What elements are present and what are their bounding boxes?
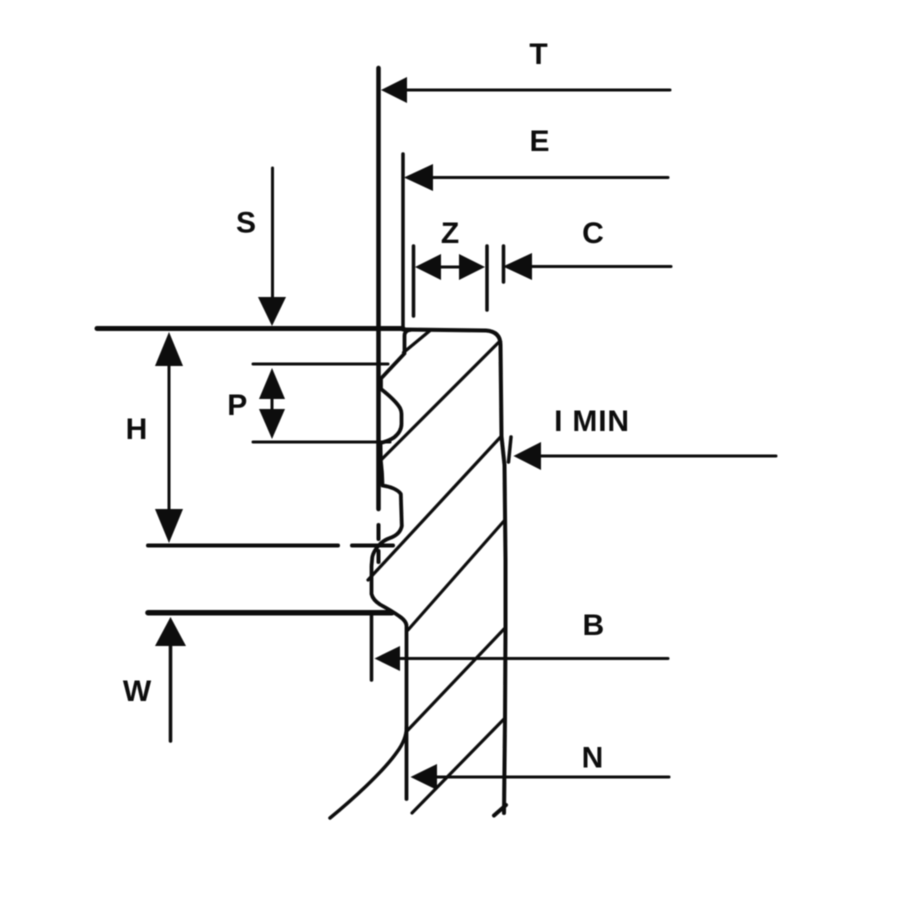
Z dimension line — [438, 266, 462, 269]
Z left arrowhead — [415, 254, 441, 280]
P top tick line — [253, 363, 388, 366]
Z left extension tick — [412, 246, 416, 316]
I MIN extension tick — [509, 437, 512, 462]
B arrowhead — [375, 646, 401, 671]
T reference vertical line — [376, 68, 381, 509]
W arrowhead — [155, 617, 186, 646]
B extension tick — [370, 612, 374, 680]
B dimension line — [398, 657, 668, 660]
P dimension line — [271, 398, 274, 411]
S arrowhead — [258, 297, 286, 326]
flange top surface line (S reference) — [97, 326, 403, 331]
N dimension line — [434, 776, 669, 779]
svg-text:P: P — [227, 389, 247, 422]
W thick surface line — [148, 610, 392, 616]
E reference vertical line — [401, 154, 405, 328]
C dimension line — [530, 265, 671, 268]
T dimension line — [404, 89, 670, 92]
svg-text:I MIN: I MIN — [554, 405, 630, 438]
P bottom arrowhead — [259, 409, 285, 439]
hatch line a — [404, 331, 430, 353]
profile top edge and right edge outline — [403, 330, 506, 814]
C extension tick — [502, 246, 506, 282]
I MIN dimension line — [538, 455, 776, 458]
H top arrowhead — [155, 332, 183, 366]
Z right arrowhead — [459, 254, 485, 280]
I MIN arrowhead — [514, 442, 542, 470]
P top arrowhead — [259, 368, 285, 399]
hatch line b — [381, 341, 500, 460]
svg-text:Z: Z — [441, 217, 459, 250]
H dimension line — [168, 360, 171, 516]
bottom foot hatch stub — [494, 805, 506, 816]
H bottom dashed reference line — [148, 544, 393, 548]
svg-text:W: W — [123, 675, 152, 708]
W dimension line — [169, 644, 173, 741]
svg-text:T: T — [529, 38, 547, 71]
svg-text:S: S — [236, 207, 256, 240]
svg-text:N: N — [582, 742, 604, 775]
Z right extension tick — [485, 246, 489, 310]
P bottom tick line — [253, 441, 390, 444]
T reference dashed continuation — [377, 525, 381, 562]
svg-text:E: E — [529, 125, 549, 158]
S dimension line — [271, 168, 274, 300]
svg-text:B: B — [582, 609, 604, 642]
hatch line f — [412, 718, 505, 813]
svg-text:C: C — [582, 217, 604, 250]
profile left edge outline — [372, 330, 411, 799]
hatch line e — [408, 628, 506, 731]
C arrowhead — [503, 253, 532, 280]
N arrowhead — [411, 764, 438, 790]
H bottom arrowhead — [155, 509, 183, 543]
disc sweeping curve — [330, 727, 407, 818]
E arrowhead — [404, 164, 433, 191]
E dimension line — [430, 176, 668, 179]
svg-text:H: H — [126, 413, 148, 446]
hatch line d — [408, 521, 504, 630]
hatch line c — [368, 437, 501, 581]
T arrowhead — [381, 77, 407, 103]
